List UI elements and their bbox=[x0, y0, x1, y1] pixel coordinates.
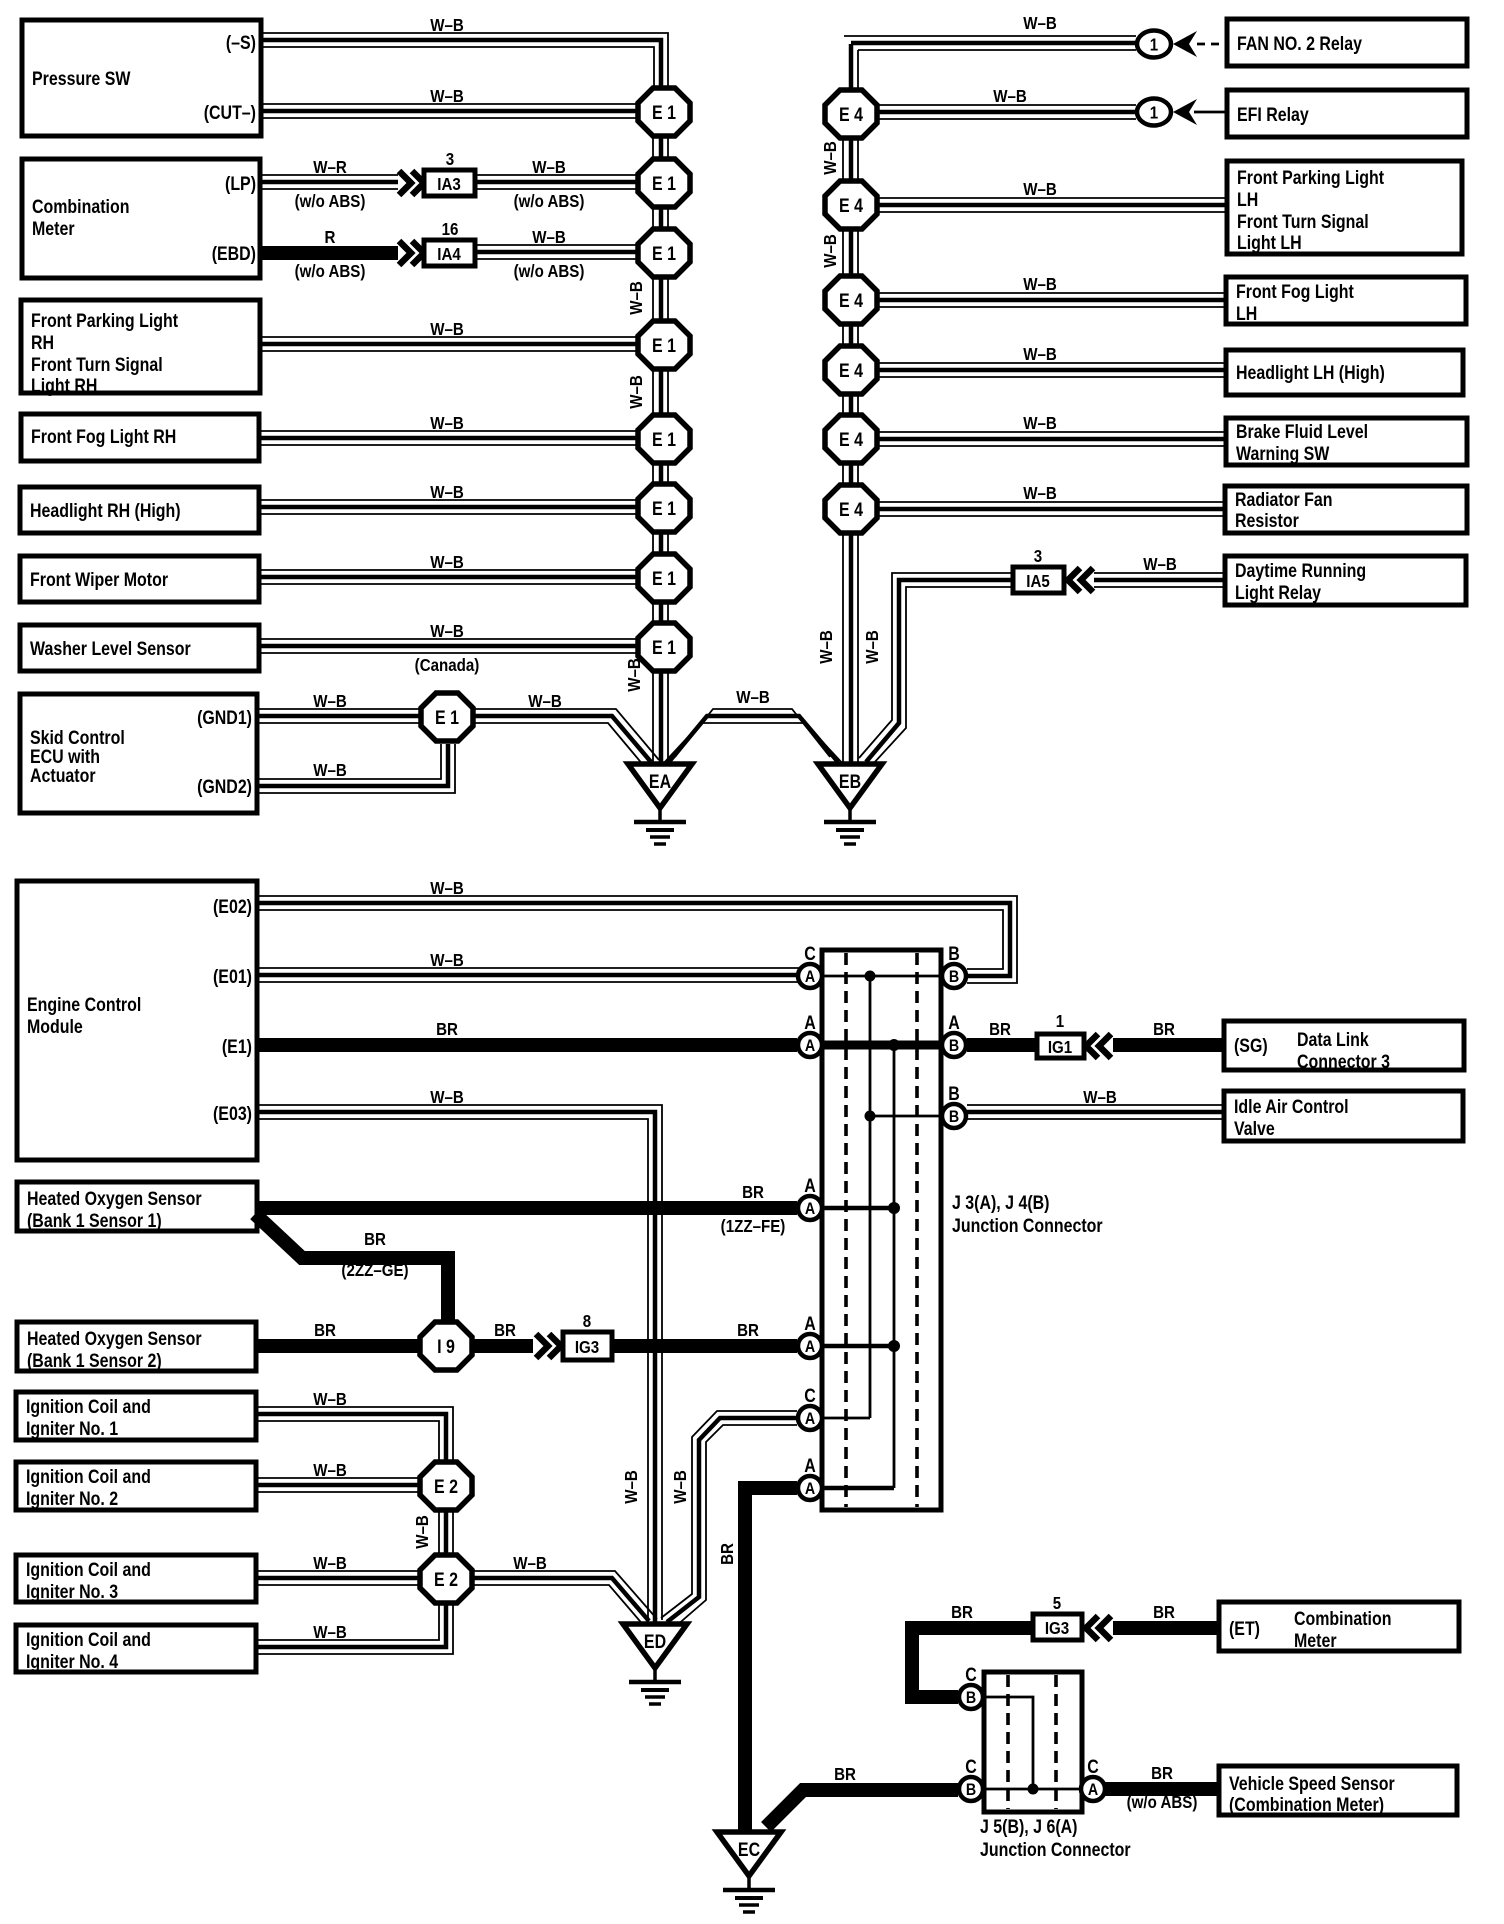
svg-text:Light LH: Light LH bbox=[1237, 232, 1302, 254]
component Radiator Fan Resistor bbox=[1225, 486, 1467, 533]
svg-text:W–B: W–B bbox=[430, 482, 464, 503]
connector IG1 pin 1 bbox=[1037, 1011, 1111, 1058]
svg-text:A: A bbox=[805, 1338, 815, 1356]
svg-text:W–B: W–B bbox=[1023, 483, 1057, 504]
wire W-B wiper motor to E1 #7 bbox=[259, 552, 639, 584]
connector IG3 pin 8 bbox=[563, 1311, 612, 1360]
connector E4 #4 bbox=[825, 346, 877, 394]
svg-text:IG1: IG1 bbox=[1048, 1037, 1072, 1058]
svg-text:W–B: W–B bbox=[624, 658, 645, 692]
connector E4 #6 bbox=[825, 485, 877, 533]
svg-text:W–B: W–B bbox=[820, 234, 841, 268]
component Ignition Coil and Igniter No. 4 bbox=[16, 1625, 256, 1672]
wire W-B igniter3 to E2 #2 bbox=[256, 1553, 422, 1585]
svg-text:BR: BR bbox=[737, 1320, 759, 1341]
svg-text:Connector 3: Connector 3 bbox=[1297, 1051, 1390, 1073]
svg-text:Meter: Meter bbox=[1294, 1630, 1337, 1652]
component Headlight RH (High) bbox=[20, 487, 259, 533]
connector E4 #1 bbox=[825, 90, 877, 138]
svg-text:(w/o ABS): (w/o ABS) bbox=[514, 191, 585, 212]
svg-text:E 1: E 1 bbox=[652, 243, 676, 265]
component Ignition Coil and Igniter No. 3 bbox=[16, 1555, 256, 1602]
wire BR IG3 down to junction J5 B bbox=[912, 1602, 1033, 1697]
svg-text:Resistor: Resistor bbox=[1235, 510, 1299, 532]
wire BR junction A row down to ground EC bbox=[717, 1488, 797, 1830]
wire W-B E1 column vertical to EA bbox=[624, 136, 668, 763]
junction row6 internal bbox=[823, 1417, 870, 1420]
connector E1 #1 bbox=[638, 88, 690, 136]
ground connector E1 (skid control) bbox=[421, 693, 473, 741]
junction pin A row A (E1) bbox=[798, 1012, 822, 1057]
svg-text:B: B bbox=[948, 1083, 960, 1105]
svg-text:W–B: W–B bbox=[430, 413, 464, 434]
svg-text:W–B: W–B bbox=[1023, 274, 1057, 295]
svg-text:ED: ED bbox=[644, 1631, 666, 1653]
svg-text:BR: BR bbox=[717, 1543, 738, 1565]
svg-text:W–B: W–B bbox=[670, 1470, 691, 1504]
wire W-B junction B to idle air control valve bbox=[967, 1087, 1224, 1119]
svg-text:(Bank 1 Sensor 1): (Bank 1 Sensor 1) bbox=[27, 1210, 162, 1232]
svg-text:RH: RH bbox=[31, 332, 54, 354]
wire BR junction B to IG1 bbox=[967, 1019, 1037, 1045]
svg-text:A: A bbox=[805, 1200, 815, 1218]
svg-text:(CUT–): (CUT–) bbox=[204, 102, 256, 124]
svg-text:W–B: W–B bbox=[736, 687, 770, 708]
svg-text:W–B: W–B bbox=[621, 1470, 642, 1504]
wire BR (E1) to junction A bbox=[257, 1019, 797, 1045]
svg-text:(GND1): (GND1) bbox=[197, 707, 252, 729]
connector IA3 pin 3 bbox=[424, 149, 475, 196]
svg-text:Ignition Coil and: Ignition Coil and bbox=[26, 1396, 151, 1418]
svg-text:E 4: E 4 bbox=[839, 499, 863, 521]
svg-text:C: C bbox=[1087, 1756, 1099, 1778]
svg-text:1: 1 bbox=[1150, 34, 1158, 55]
wire W-B E4 #1 to EFI relay tag bbox=[877, 86, 1136, 119]
component Ignition Coil and Igniter No. 1 bbox=[16, 1392, 256, 1440]
connector IA5 pin 3 bbox=[1013, 546, 1064, 593]
svg-text:(GND2): (GND2) bbox=[197, 776, 252, 798]
wire W-B skid E1 to ground EA bbox=[473, 691, 659, 766]
component Ignition Coil and Igniter No. 2 bbox=[16, 1462, 256, 1510]
svg-text:W–B: W–B bbox=[430, 1087, 464, 1108]
svg-text:Meter: Meter bbox=[32, 218, 75, 240]
svg-text:Junction Connector: Junction Connector bbox=[952, 1215, 1103, 1237]
svg-text:W–B: W–B bbox=[816, 630, 837, 664]
svg-text:W–B: W–B bbox=[993, 86, 1027, 107]
svg-text:(LP): (LP) bbox=[225, 173, 256, 195]
component Pressure SW bbox=[22, 20, 261, 136]
junction pin A (VSS) bbox=[1081, 1756, 1105, 1801]
svg-text:R: R bbox=[325, 227, 336, 248]
svg-text:E 1: E 1 bbox=[652, 637, 676, 659]
junction row B-B internal bbox=[865, 1111, 941, 1122]
svg-text:Brake Fluid Level: Brake Fluid Level bbox=[1236, 421, 1368, 443]
svg-text:A: A bbox=[805, 1037, 815, 1055]
svg-text:LH: LH bbox=[1236, 303, 1257, 325]
wire W-B E4 #5 to brake fluid level SW bbox=[877, 413, 1226, 446]
svg-text:Headlight LH (High): Headlight LH (High) bbox=[1236, 362, 1385, 384]
component FAN NO. 2 Relay bbox=[1227, 19, 1467, 66]
wire W-B igniter4 to E2 #2 bbox=[256, 1604, 453, 1654]
svg-text:E 4: E 4 bbox=[839, 195, 863, 217]
svg-text:W–B: W–B bbox=[430, 621, 464, 642]
connector IG3 pin 5 bbox=[1033, 1593, 1082, 1640]
wire W-B daytime running light relay to IA5 bbox=[1068, 554, 1225, 592]
component Engine Control Module bbox=[17, 881, 257, 1160]
svg-text:(w/o ABS): (w/o ABS) bbox=[295, 191, 366, 212]
component Front Parking Light RH / Front Turn Signal Light RH bbox=[21, 300, 260, 396]
connector E2 #1 bbox=[420, 1462, 472, 1510]
wire W-B igniter2 to E2 #1 bbox=[256, 1460, 422, 1492]
dashed lead FAN NO.2 relay bbox=[1197, 43, 1228, 46]
svg-text:E 1: E 1 bbox=[435, 707, 459, 729]
svg-text:W–B: W–B bbox=[528, 691, 562, 712]
wire BR junction A to vehicle speed sensor (w/o ABS) bbox=[1105, 1763, 1219, 1813]
connector I9 bbox=[420, 1322, 472, 1370]
svg-text:W–B: W–B bbox=[313, 1553, 347, 1574]
svg-text:Warning SW: Warning SW bbox=[1236, 443, 1330, 465]
wire BR combination meter (ET) to IG3 bbox=[1086, 1602, 1219, 1640]
svg-text:1: 1 bbox=[1056, 1011, 1064, 1032]
svg-text:E 4: E 4 bbox=[839, 360, 863, 382]
svg-text:W–B: W–B bbox=[1023, 344, 1057, 365]
svg-text:Module: Module bbox=[27, 1016, 83, 1038]
svg-text:BR: BR bbox=[364, 1229, 386, 1250]
svg-text:W–B: W–B bbox=[1023, 179, 1057, 200]
junction J5 internal link bbox=[984, 1697, 1081, 1795]
wire BR I9 to IG3 bbox=[472, 1320, 561, 1358]
svg-text:Ignition Coil and: Ignition Coil and bbox=[26, 1466, 151, 1488]
svg-text:E 4: E 4 bbox=[839, 104, 863, 126]
lead EFI relay bbox=[1194, 111, 1228, 114]
svg-text:(w/o ABS): (w/o ABS) bbox=[295, 261, 366, 282]
svg-text:I 9: I 9 bbox=[437, 1336, 455, 1358]
ground ED bbox=[623, 1624, 687, 1704]
junction pin A row A (to EC) bbox=[798, 1455, 822, 1500]
svg-text:Front Turn Signal: Front Turn Signal bbox=[1237, 211, 1369, 233]
svg-text:BR: BR bbox=[742, 1182, 764, 1203]
wire W-B from IA4 to E1 #3 w/o ABS bbox=[475, 227, 639, 282]
svg-text:(Combination Meter): (Combination Meter) bbox=[1229, 1794, 1384, 1816]
wire BR IG3 to junction A bbox=[612, 1320, 797, 1346]
svg-text:(E1): (E1) bbox=[222, 1036, 252, 1058]
wire W-B IA5 down to ground EB bbox=[859, 573, 1013, 764]
svg-text:W–B: W–B bbox=[862, 630, 883, 664]
svg-text:Ignition Coil and: Ignition Coil and bbox=[26, 1629, 151, 1651]
connector E4 #2 bbox=[825, 181, 877, 229]
svg-text:Igniter No. 3: Igniter No. 3 bbox=[26, 1581, 118, 1603]
wire W-B front parking RH to E1 #4 bbox=[260, 319, 639, 351]
svg-text:E 1: E 1 bbox=[652, 335, 676, 357]
wire W-B E4 #6 to radiator fan resistor bbox=[877, 483, 1225, 516]
svg-text:BR: BR bbox=[951, 1602, 973, 1623]
svg-text:1: 1 bbox=[1150, 102, 1158, 123]
svg-text:B: B bbox=[949, 1037, 959, 1055]
svg-text:EC: EC bbox=[738, 1839, 760, 1861]
svg-text:Front Parking Light: Front Parking Light bbox=[31, 310, 178, 332]
svg-text:Idle Air Control: Idle Air Control bbox=[1234, 1096, 1349, 1118]
junction pin B bottom (EC) bbox=[959, 1756, 983, 1801]
svg-text:Front Parking Light: Front Parking Light bbox=[1237, 167, 1384, 189]
svg-text:E 1: E 1 bbox=[652, 429, 676, 451]
svg-text:A: A bbox=[805, 968, 815, 986]
junction pin A row C (to ED) bbox=[798, 1385, 822, 1430]
svg-text:W–B: W–B bbox=[412, 1515, 433, 1549]
svg-text:Front Fog Light: Front Fog Light bbox=[1236, 281, 1354, 303]
svg-text:B: B bbox=[966, 1781, 976, 1799]
component Skid Control ECU with Actuator bbox=[20, 694, 257, 813]
wire W-B (E03) down to ground ED bbox=[257, 1087, 662, 1622]
wire W-B E4 #4 to headlight LH bbox=[877, 344, 1226, 377]
component Front Parking Light LH / Front Turn Signal Light LH bbox=[1227, 161, 1462, 254]
svg-text:IA4: IA4 bbox=[437, 244, 461, 265]
svg-text:BR: BR bbox=[1151, 1763, 1173, 1784]
svg-text:Data Link: Data Link bbox=[1297, 1029, 1369, 1051]
connector E1 #4 bbox=[638, 321, 690, 369]
component Combination Meter bbox=[22, 159, 260, 278]
svg-text:W–B: W–B bbox=[532, 157, 566, 178]
svg-text:W–B: W–B bbox=[313, 691, 347, 712]
svg-text:EA: EA bbox=[649, 771, 671, 793]
svg-text:(SG): (SG) bbox=[1234, 1035, 1268, 1057]
svg-text:W–B: W–B bbox=[1023, 413, 1057, 434]
svg-text:Heated Oxygen Sensor: Heated Oxygen Sensor bbox=[27, 1188, 202, 1210]
wire BR HO2S bank1 sensor1 to junction (1ZZ-FE) bbox=[257, 1182, 797, 1237]
svg-text:BR: BR bbox=[989, 1019, 1011, 1040]
wire BR HO2S branch (2ZZ-GE) to I9 bbox=[255, 1214, 448, 1320]
svg-text:IG3: IG3 bbox=[575, 1337, 599, 1358]
svg-text:E 2: E 2 bbox=[434, 1569, 458, 1591]
svg-text:BR: BR bbox=[834, 1764, 856, 1785]
connector E1 #8 bbox=[638, 623, 690, 671]
svg-text:C: C bbox=[804, 943, 816, 965]
component Heated Oxygen Sensor (Bank 1 Sensor 1) bbox=[17, 1182, 257, 1231]
svg-text:W–B: W–B bbox=[313, 1460, 347, 1481]
wire W-B igniter1 to E2 #1 bbox=[256, 1389, 453, 1461]
svg-text:Light RH: Light RH bbox=[31, 375, 97, 397]
svg-text:IA5: IA5 bbox=[1026, 571, 1050, 592]
svg-text:J 3(A), J 4(B): J 3(A), J 4(B) bbox=[952, 1192, 1049, 1214]
svg-text:(ET): (ET) bbox=[1229, 1618, 1260, 1640]
svg-text:Engine Control: Engine Control bbox=[27, 994, 141, 1016]
svg-text:W–B: W–B bbox=[626, 281, 647, 315]
svg-text:B: B bbox=[948, 943, 960, 965]
svg-text:8: 8 bbox=[583, 1311, 591, 1332]
junction pin A row A (IG3) bbox=[798, 1313, 822, 1358]
junction row C-A to B-B internal bbox=[823, 971, 940, 982]
wire BR EC to junction J5 B bbox=[766, 1764, 958, 1827]
svg-text:Igniter No. 1: Igniter No. 1 bbox=[26, 1418, 118, 1440]
svg-text:Junction Connector: Junction Connector bbox=[980, 1839, 1131, 1861]
svg-text:Daytime Running: Daytime Running bbox=[1235, 560, 1366, 582]
component Brake Fluid Level Warning SW bbox=[1226, 418, 1467, 465]
svg-text:W–B: W–B bbox=[532, 227, 566, 248]
wire BR HO2S bank1 sensor2 to I9 bbox=[256, 1320, 420, 1346]
svg-text:5: 5 bbox=[1053, 1593, 1061, 1614]
svg-text:Actuator: Actuator bbox=[30, 765, 96, 787]
svg-text:A: A bbox=[805, 1480, 815, 1498]
svg-text:BR: BR bbox=[436, 1019, 458, 1040]
connector IA4 pin 16 bbox=[424, 219, 475, 266]
wire W-R from (LP) w/o ABS bbox=[260, 157, 424, 212]
connector E4 #3 bbox=[825, 276, 877, 324]
junction row4 internal bbox=[823, 1202, 900, 1214]
svg-text:W–B: W–B bbox=[430, 86, 464, 107]
connector E1 #6 bbox=[638, 484, 690, 532]
svg-text:E 4: E 4 bbox=[839, 290, 863, 312]
junction pin A row C bbox=[798, 943, 822, 988]
svg-text:W–B: W–B bbox=[1143, 554, 1177, 575]
svg-text:(E01): (E01) bbox=[213, 966, 252, 988]
svg-text:A: A bbox=[1088, 1781, 1098, 1799]
connector E2 #2 bbox=[420, 1555, 472, 1603]
svg-text:Front Wiper Motor: Front Wiper Motor bbox=[30, 569, 168, 591]
junction row5 internal bbox=[823, 1340, 900, 1352]
component Vehicle Speed Sensor (Combination Meter) bbox=[1219, 1766, 1457, 1815]
svg-text:EFI Relay: EFI Relay bbox=[1237, 104, 1309, 126]
junction connector J5(B) J6(A) body bbox=[984, 1672, 1082, 1812]
svg-text:A: A bbox=[804, 1313, 816, 1335]
wire W-B washer sensor (Canada) to E1 #8 bbox=[259, 621, 639, 676]
wire W-B from (-S) to E1 column bbox=[262, 15, 668, 86]
svg-text:3: 3 bbox=[1034, 546, 1042, 567]
junction pin B top (IG3) bbox=[959, 1664, 983, 1709]
svg-text:W–B: W–B bbox=[430, 950, 464, 971]
component Front Fog Light LH bbox=[1226, 277, 1466, 324]
svg-text:E 1: E 1 bbox=[652, 102, 676, 124]
component Data Link Connector 3 bbox=[1224, 1021, 1464, 1072]
svg-text:(w/o ABS): (w/o ABS) bbox=[1127, 1792, 1198, 1813]
connector E1 #7 bbox=[638, 554, 690, 602]
svg-text:E 1: E 1 bbox=[652, 173, 676, 195]
svg-text:Front Fog Light RH: Front Fog Light RH bbox=[31, 426, 176, 448]
svg-text:IG3: IG3 bbox=[1045, 1618, 1069, 1639]
svg-text:W–B: W–B bbox=[1023, 13, 1057, 34]
svg-text:Washer Level Sensor: Washer Level Sensor bbox=[30, 638, 191, 660]
svg-text:(EBD): (EBD) bbox=[212, 243, 256, 265]
wire W-B E4 top to FAN relay tag bbox=[844, 13, 1136, 88]
junction pin B row A (IG1) bbox=[942, 1012, 966, 1057]
svg-text:E 2: E 2 bbox=[434, 1476, 458, 1498]
svg-text:W–B: W–B bbox=[430, 552, 464, 573]
connector E1 #2 bbox=[638, 159, 690, 207]
component Combination Meter (ET) bbox=[1219, 1602, 1459, 1651]
svg-text:W–B: W–B bbox=[430, 15, 464, 36]
junction connector J3(A) J4(B) body bbox=[822, 950, 941, 1510]
connector E1 #5 bbox=[638, 415, 690, 463]
ground EB bbox=[818, 764, 882, 844]
wire W-B E4 column vertical to EB bbox=[816, 44, 858, 763]
wire W-B headlight RH to E1 #6 bbox=[259, 482, 639, 514]
svg-text:W–B: W–B bbox=[430, 319, 464, 340]
svg-text:E 1: E 1 bbox=[652, 498, 676, 520]
svg-text:W–B: W–B bbox=[820, 141, 841, 175]
junction pin B row B (E02) bbox=[942, 943, 966, 988]
svg-text:A: A bbox=[804, 1175, 816, 1197]
svg-text:C: C bbox=[965, 1756, 977, 1778]
component Headlight LH (High) bbox=[1226, 350, 1463, 395]
svg-text:W–B: W–B bbox=[313, 1622, 347, 1643]
junction pin A row A (1ZZ-FE) bbox=[798, 1175, 822, 1220]
svg-text:B: B bbox=[949, 968, 959, 986]
svg-text:Valve: Valve bbox=[1234, 1118, 1275, 1140]
relay tag 1 FAN bbox=[1137, 31, 1197, 58]
wire W-B front fog RH to E1 #5 bbox=[259, 413, 639, 445]
wire BR IG1 to data link connector 3 bbox=[1113, 1019, 1224, 1045]
svg-text:Radiator Fan: Radiator Fan bbox=[1235, 489, 1332, 511]
svg-text:16: 16 bbox=[442, 219, 459, 240]
svg-text:LH: LH bbox=[1237, 189, 1258, 211]
svg-text:BR: BR bbox=[494, 1320, 516, 1341]
wire W-B E4 #2 to front parking LH bbox=[877, 179, 1227, 212]
svg-text:Pressure SW: Pressure SW bbox=[32, 68, 131, 90]
svg-text:J 5(B), J 6(A): J 5(B), J 6(A) bbox=[980, 1816, 1077, 1838]
svg-text:(Canada): (Canada) bbox=[415, 655, 480, 676]
svg-text:W–B: W–B bbox=[430, 878, 464, 899]
svg-text:Heated Oxygen Sensor: Heated Oxygen Sensor bbox=[27, 1328, 202, 1350]
svg-text:B: B bbox=[949, 1108, 959, 1126]
wire W-B from IA3 to E1 #2 w/o ABS bbox=[475, 157, 639, 212]
svg-text:Light Relay: Light Relay bbox=[1235, 582, 1321, 604]
ground EA bbox=[628, 764, 692, 844]
junction internal bus line 2 bbox=[893, 1045, 896, 1488]
svg-text:E 4: E 4 bbox=[839, 429, 863, 451]
wire W-B junction C row down to ground ED bbox=[661, 1411, 797, 1626]
svg-text:C: C bbox=[965, 1664, 977, 1686]
junction row7 internal bbox=[823, 1486, 894, 1491]
svg-text:EB: EB bbox=[839, 771, 861, 793]
svg-text:A: A bbox=[804, 1455, 816, 1477]
component Washer Level Sensor bbox=[20, 625, 259, 671]
wire W-B from (GND1) to skid E1 bbox=[258, 691, 422, 723]
wire W-B from (CUT-) to E1 #1 bbox=[262, 86, 639, 118]
wire W-B E2 to ground ED bbox=[472, 1553, 657, 1627]
component EFI Relay bbox=[1227, 90, 1467, 137]
junction row A-A to A-B internal (BR) bbox=[823, 1039, 940, 1051]
label junction connector J5 J6 bbox=[980, 1816, 1131, 1861]
svg-text:BR: BR bbox=[1153, 1019, 1175, 1040]
svg-text:W–B: W–B bbox=[313, 760, 347, 781]
component Idle Air Control Valve bbox=[1224, 1091, 1463, 1141]
svg-text:A: A bbox=[804, 1012, 816, 1034]
svg-text:A: A bbox=[948, 1012, 960, 1034]
svg-text:Igniter No. 2: Igniter No. 2 bbox=[26, 1488, 118, 1510]
svg-text:(E02): (E02) bbox=[213, 896, 252, 918]
svg-text:(1ZZ–FE): (1ZZ–FE) bbox=[721, 1216, 786, 1237]
svg-text:W–B: W–B bbox=[513, 1553, 547, 1574]
svg-text:(2ZZ–GE): (2ZZ–GE) bbox=[341, 1260, 408, 1281]
svg-text:B: B bbox=[966, 1689, 976, 1707]
svg-text:(w/o ABS): (w/o ABS) bbox=[514, 261, 585, 282]
svg-text:3: 3 bbox=[446, 149, 454, 170]
svg-text:(E03): (E03) bbox=[213, 1103, 252, 1125]
svg-text:Front Turn Signal: Front Turn Signal bbox=[31, 354, 163, 376]
svg-text:Igniter No. 4: Igniter No. 4 bbox=[26, 1651, 118, 1673]
connector E1 #3 bbox=[638, 229, 690, 277]
wire W-B from (GND2) to skid E1 bbox=[258, 744, 455, 793]
svg-text:BR: BR bbox=[314, 1320, 336, 1341]
svg-text:Ignition Coil and: Ignition Coil and bbox=[26, 1559, 151, 1581]
svg-text:(–S): (–S) bbox=[226, 32, 256, 54]
component Heated Oxygen Sensor (Bank 1 Sensor 2) bbox=[17, 1322, 256, 1371]
svg-text:A: A bbox=[805, 1410, 815, 1428]
connector E4 #5 bbox=[825, 415, 877, 463]
svg-text:Headlight RH (High): Headlight RH (High) bbox=[30, 500, 181, 522]
svg-text:Combination: Combination bbox=[1294, 1608, 1391, 1630]
svg-text:(Bank 1 Sensor 2): (Bank 1 Sensor 2) bbox=[27, 1350, 162, 1372]
svg-text:W–B: W–B bbox=[626, 375, 647, 409]
junction pin B row B (IAC) bbox=[942, 1083, 966, 1128]
